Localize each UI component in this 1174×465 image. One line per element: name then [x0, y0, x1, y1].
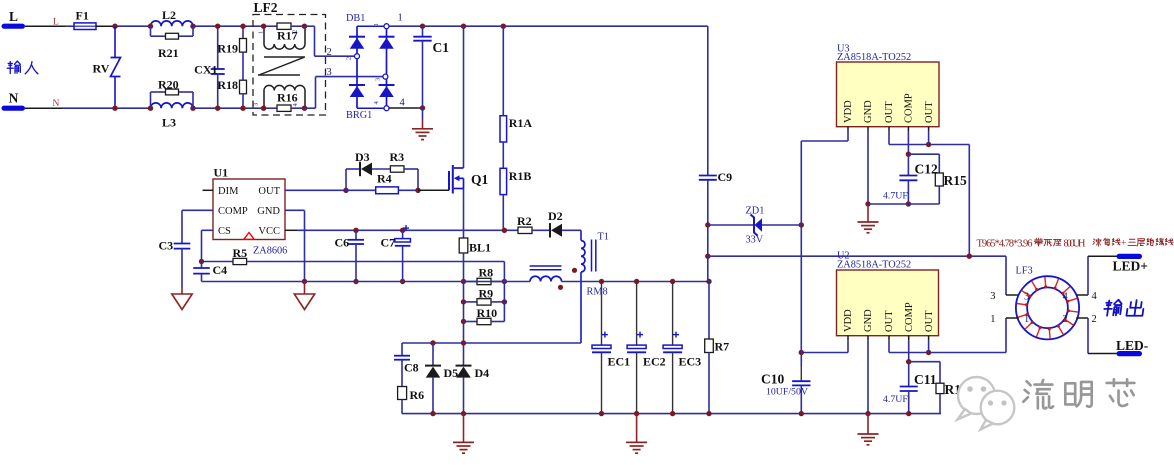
resistor R17 — [264, 23, 305, 43]
pin stub DIM — [203, 189, 214, 191]
svg-text:L: L — [53, 18, 59, 28]
wire CS — [199, 230, 213, 264]
svg-text:ZA8606: ZA8606 — [253, 246, 287, 257]
inductor L3 — [148, 103, 196, 130]
svg-text:1: 1 — [258, 31, 265, 34]
svg-text:R19: R19 — [217, 42, 238, 56]
capacitor C3 — [159, 239, 191, 289]
svg-text:R6: R6 — [410, 388, 425, 402]
resistor R1B — [500, 142, 531, 230]
svg-text:L2: L2 — [162, 8, 176, 22]
svg-text:C1: C1 — [433, 40, 450, 55]
svg-text:T965*4.78*3.96: T965*4.78*3.96 — [977, 239, 1033, 250]
vertical supply x801 — [800, 225, 802, 366]
svg-text:LED-: LED- — [1116, 338, 1148, 353]
capacitor C1 — [413, 24, 449, 111]
svg-text:BL1: BL1 — [469, 241, 491, 255]
svg-text:D2: D2 — [548, 209, 563, 223]
svg-text:3: 3 — [327, 67, 332, 78]
regulator U2 — [837, 251, 939, 336]
svg-text:Q1: Q1 — [471, 172, 489, 187]
ground under U2 — [858, 414, 879, 445]
svg-text:U1: U1 — [214, 166, 229, 180]
wire gate — [418, 189, 449, 191]
wire bridge to C1 bottom — [389, 107, 423, 109]
svg-text:F1: F1 — [76, 9, 89, 23]
wire LF3 pin1 — [1006, 317, 1019, 319]
wire U2 COMP — [906, 341, 911, 387]
wire U2 GND — [865, 341, 870, 417]
capacitor C8 — [394, 343, 419, 387]
svg-text:LF2: LF2 — [254, 0, 278, 15]
bridge node 4 circle — [384, 98, 406, 111]
resistor R7 — [705, 279, 729, 417]
svg-text:OUT: OUT — [884, 310, 895, 332]
resistor R16 — [264, 91, 305, 112]
svg-text:1: 1 — [1024, 314, 1029, 325]
svg-text:D4: D4 — [475, 366, 490, 380]
ground triangle under U1 GND — [294, 282, 314, 310]
svg-text:BRG1: BRG1 — [346, 110, 372, 121]
port LED- — [1116, 338, 1148, 356]
bridge node 1 circle — [384, 12, 403, 28]
svg-text:OUT: OUT — [924, 101, 935, 123]
wire GND U1 — [285, 210, 307, 284]
wire L to F1 — [25, 25, 74, 27]
svg-text:GND: GND — [257, 206, 280, 217]
svg-text:3: 3 — [990, 291, 995, 302]
svg-text:L3: L3 — [162, 116, 176, 130]
wire VCC — [285, 229, 518, 231]
svg-text:2: 2 — [292, 30, 299, 33]
svg-text:33V: 33V — [746, 235, 764, 246]
bead BL1 — [459, 238, 491, 343]
resistor R18 — [217, 78, 246, 111]
svg-text:C9: C9 — [718, 170, 733, 184]
label T1 — [598, 232, 609, 243]
svg-text:DIM: DIM — [218, 186, 239, 197]
wire source down — [463, 189, 465, 239]
node VCC R1B — [502, 228, 507, 233]
resistor R2 — [517, 214, 550, 234]
watermark wechat logo — [958, 377, 1015, 430]
svg-text:CS: CS — [218, 226, 231, 237]
input title — [7, 61, 38, 74]
svg-text:R16: R16 — [277, 91, 298, 105]
svg-text:10UF/50V: 10UF/50V — [766, 387, 808, 398]
wire U2 VDD — [799, 341, 848, 355]
U2 pin stubs — [848, 336, 929, 341]
wire L2 to CX1 — [193, 25, 264, 27]
svg-text:R15: R15 — [944, 173, 967, 188]
ground under U3 — [858, 204, 879, 233]
wire C12 R15 bottom — [868, 203, 939, 205]
diode D2 — [548, 209, 581, 238]
node L-RV — [112, 24, 117, 29]
svg-text:DB1: DB1 — [346, 13, 365, 24]
LF2 winding 1 — [261, 24, 307, 50]
T1 core — [592, 240, 596, 272]
svg-text:C3: C3 — [159, 239, 174, 253]
svg-text:3: 3 — [375, 78, 382, 81]
svg-text:ZA8518A-TO252: ZA8518A-TO252 — [837, 259, 911, 270]
inductor L2 — [148, 8, 196, 29]
T1 polarity dot primary — [572, 268, 577, 273]
resistor R5 — [202, 246, 505, 265]
svg-text:COMP: COMP — [904, 302, 915, 332]
resistor R3 — [372, 150, 421, 193]
svg-text:D5: D5 — [444, 366, 459, 380]
svg-text:N: N — [9, 91, 19, 106]
svg-text:3: 3 — [1024, 292, 1029, 303]
svg-text:R2: R2 — [517, 214, 532, 228]
svg-text:3: 3 — [253, 103, 260, 106]
svg-text:+: + — [1121, 239, 1126, 249]
capacitor EC2 — [627, 279, 666, 417]
pin number 2 — [327, 47, 332, 58]
svg-text:CX1: CX1 — [194, 63, 217, 77]
wire LF3 pin2 to LED- — [1076, 318, 1117, 354]
wire N — [25, 107, 151, 109]
svg-text:EC2: EC2 — [643, 355, 666, 369]
bridge label BRG1 — [346, 110, 372, 121]
wire COMP to C3 — [182, 210, 213, 243]
resistor R6 — [398, 387, 425, 414]
zener ZD1 — [705, 206, 804, 246]
svg-text:4.7UF: 4.7UF — [883, 191, 908, 202]
top rail — [389, 25, 708, 27]
diode D3 — [346, 150, 372, 190]
transformer T1 primary — [581, 230, 585, 343]
transistor Q1 — [449, 165, 489, 194]
svg-text:VCC: VCC — [258, 226, 280, 237]
svg-text:4: 4 — [1092, 291, 1098, 302]
bridge left branch — [356, 26, 358, 108]
bridge diode top-left — [349, 37, 365, 49]
svg-text:T1: T1 — [598, 232, 609, 243]
svg-text:R3: R3 — [390, 150, 405, 164]
LF2 core — [258, 57, 305, 75]
svg-text:C11: C11 — [914, 372, 937, 387]
svg-text:1: 1 — [398, 12, 403, 23]
bridge diode top-right — [379, 37, 395, 49]
bridge top wire — [357, 25, 387, 27]
output title — [1103, 300, 1144, 316]
svg-text:D3: D3 — [355, 150, 370, 164]
svg-text:EC3: EC3 — [679, 355, 702, 369]
ground under D4 — [453, 414, 474, 454]
output node wire — [705, 254, 1006, 259]
bridge node 3 circle — [383, 74, 388, 79]
svg-text:1: 1 — [373, 23, 380, 26]
capacitor C6 — [335, 228, 365, 285]
diode D4 — [456, 343, 490, 414]
wire U3 VDD — [801, 132, 848, 225]
svg-text:ZA8518A-TO252: ZA8518A-TO252 — [837, 52, 911, 63]
resistor R10 — [461, 306, 505, 325]
resistor R21 — [151, 26, 194, 60]
svg-text:OUT: OUT — [924, 310, 935, 332]
svg-text:LF3: LF3 — [1016, 266, 1033, 277]
svg-text:GND: GND — [863, 100, 874, 123]
watermark text — [1023, 379, 1136, 410]
port N — [2, 91, 26, 111]
wire switch node — [402, 340, 581, 345]
LF3 inner pin numbers — [1024, 292, 1069, 326]
sense vertical wire — [503, 262, 505, 322]
svg-text:R10: R10 — [477, 306, 498, 320]
svg-text:R20: R20 — [158, 78, 179, 92]
LF2 pin 2 wire — [305, 26, 358, 56]
bridge diode bottom-left — [349, 85, 365, 97]
watermark logo eyes — [967, 386, 1006, 405]
svg-text:2: 2 — [1063, 314, 1068, 325]
varistor RV — [93, 26, 121, 108]
bridge diode bottom-right — [379, 85, 395, 97]
svg-text:4: 4 — [400, 98, 406, 109]
LF2 winding 2 — [261, 85, 307, 111]
svg-text:R1A: R1A — [509, 116, 533, 130]
wire U2 OUT — [889, 318, 1006, 355]
svg-text:R8: R8 — [479, 266, 494, 280]
svg-text:R4: R4 — [377, 172, 392, 186]
resistor R14 — [909, 362, 968, 414]
fuse F1 — [74, 9, 96, 30]
svg-text:N: N — [53, 99, 60, 109]
ground triangle under C3 — [172, 288, 192, 310]
capacitor C7 — [381, 225, 411, 284]
rail GND/sense — [202, 281, 710, 283]
svg-text:C6: C6 — [335, 236, 350, 250]
svg-text:R5: R5 — [233, 246, 248, 260]
pin number 3 — [327, 67, 332, 78]
bottom rail — [402, 411, 941, 416]
wire U3 GND — [865, 132, 870, 207]
svg-text:4.7UF: 4.7UF — [883, 394, 908, 405]
svg-text:C8: C8 — [404, 361, 419, 375]
resistor R15 — [908, 154, 967, 204]
svg-text:C10: C10 — [761, 372, 784, 387]
capacitor C4 — [193, 262, 227, 282]
svg-text:COMP: COMP — [904, 93, 915, 123]
capacitor C12 — [883, 162, 938, 207]
svg-text:ZD1: ZD1 — [746, 206, 765, 217]
bridge label DB1 — [346, 13, 365, 24]
resistor R4 — [346, 172, 418, 194]
svg-text:2: 2 — [327, 47, 332, 58]
capacitor C9 — [699, 26, 732, 281]
port L — [2, 9, 26, 29]
svg-text:VDD: VDD — [843, 309, 854, 332]
svg-text:EC1: EC1 — [608, 355, 631, 369]
svg-text:GND: GND — [863, 309, 874, 332]
svg-text:C4: C4 — [213, 263, 228, 277]
resistor R1A — [500, 24, 532, 143]
svg-text:800UH: 800UH — [1064, 239, 1086, 250]
svg-text:L: L — [9, 9, 18, 24]
svg-text:R9: R9 — [479, 286, 494, 300]
inductor spec note — [977, 238, 1174, 249]
capacitor C10 — [761, 366, 811, 416]
bridge node 2 circle — [355, 54, 360, 59]
regulator U3 — [837, 44, 940, 127]
U1 reference triangle — [244, 233, 254, 240]
LF2 pin 3 wire — [305, 77, 386, 109]
LF3 pin numbers — [990, 291, 1097, 325]
resistor R19 — [217, 24, 246, 56]
op-amp U1 box — [213, 166, 285, 240]
svg-text:C12: C12 — [915, 162, 938, 177]
wire U3 OUT — [889, 132, 972, 259]
resistor R20 — [151, 78, 194, 109]
wire R19-R18 — [242, 52, 244, 80]
wire U3 COMP — [906, 132, 911, 176]
label ZA8606 — [253, 246, 287, 257]
resistor R8 — [461, 266, 507, 285]
capacitor CX1 — [194, 24, 225, 111]
svg-text:2: 2 — [346, 57, 353, 60]
diode D5 — [425, 343, 458, 414]
svg-text:R21: R21 — [158, 46, 179, 60]
svg-text:RM8: RM8 — [587, 287, 608, 298]
ground under C1 — [412, 108, 433, 140]
resistor R9 — [461, 286, 507, 305]
svg-text:C7: C7 — [381, 236, 396, 250]
bridge bottom wire — [357, 107, 387, 109]
wire LF3 pin4 to LED+ — [1076, 256, 1117, 295]
wire L3 to LF2 — [193, 107, 264, 109]
svg-text:R18: R18 — [217, 78, 238, 92]
svg-text:1: 1 — [990, 314, 995, 325]
net label N — [53, 99, 60, 109]
svg-text:R1B: R1B — [509, 169, 532, 183]
node N-RV — [112, 106, 117, 111]
svg-text:VDD: VDD — [843, 100, 854, 123]
svg-text:COMP: COMP — [218, 206, 248, 217]
svg-text:RV: RV — [93, 62, 110, 76]
port LED+ — [1113, 254, 1148, 274]
tiny pin digits — [253, 23, 382, 107]
label RM8 — [587, 287, 608, 298]
svg-text:R7: R7 — [715, 340, 730, 354]
LF2 dashed box — [253, 0, 326, 115]
svg-text:4: 4 — [1063, 292, 1069, 303]
wire F1 to node — [96, 25, 151, 27]
svg-text:OUT: OUT — [884, 101, 895, 123]
wire LF3 pin3 — [1006, 256, 1019, 295]
transformer T1 secondary RM8 — [530, 266, 562, 282]
capacitor EC1 — [592, 279, 630, 417]
wire OUT U1 — [285, 188, 349, 193]
capacitor EC3 — [663, 279, 701, 417]
wire drain up — [461, 24, 466, 169]
svg-text:OUT: OUT — [258, 186, 280, 197]
bridge right branch — [386, 26, 388, 108]
capacitor C11 — [883, 372, 937, 416]
inductor LF3 — [1016, 266, 1080, 340]
svg-text:2: 2 — [1092, 314, 1097, 325]
U3 pin stubs — [848, 127, 929, 132]
net label L — [53, 18, 59, 28]
T1 polarity dot secondary — [558, 285, 563, 290]
svg-text:LED+: LED+ — [1113, 259, 1148, 274]
ground under EC2 — [626, 414, 647, 454]
